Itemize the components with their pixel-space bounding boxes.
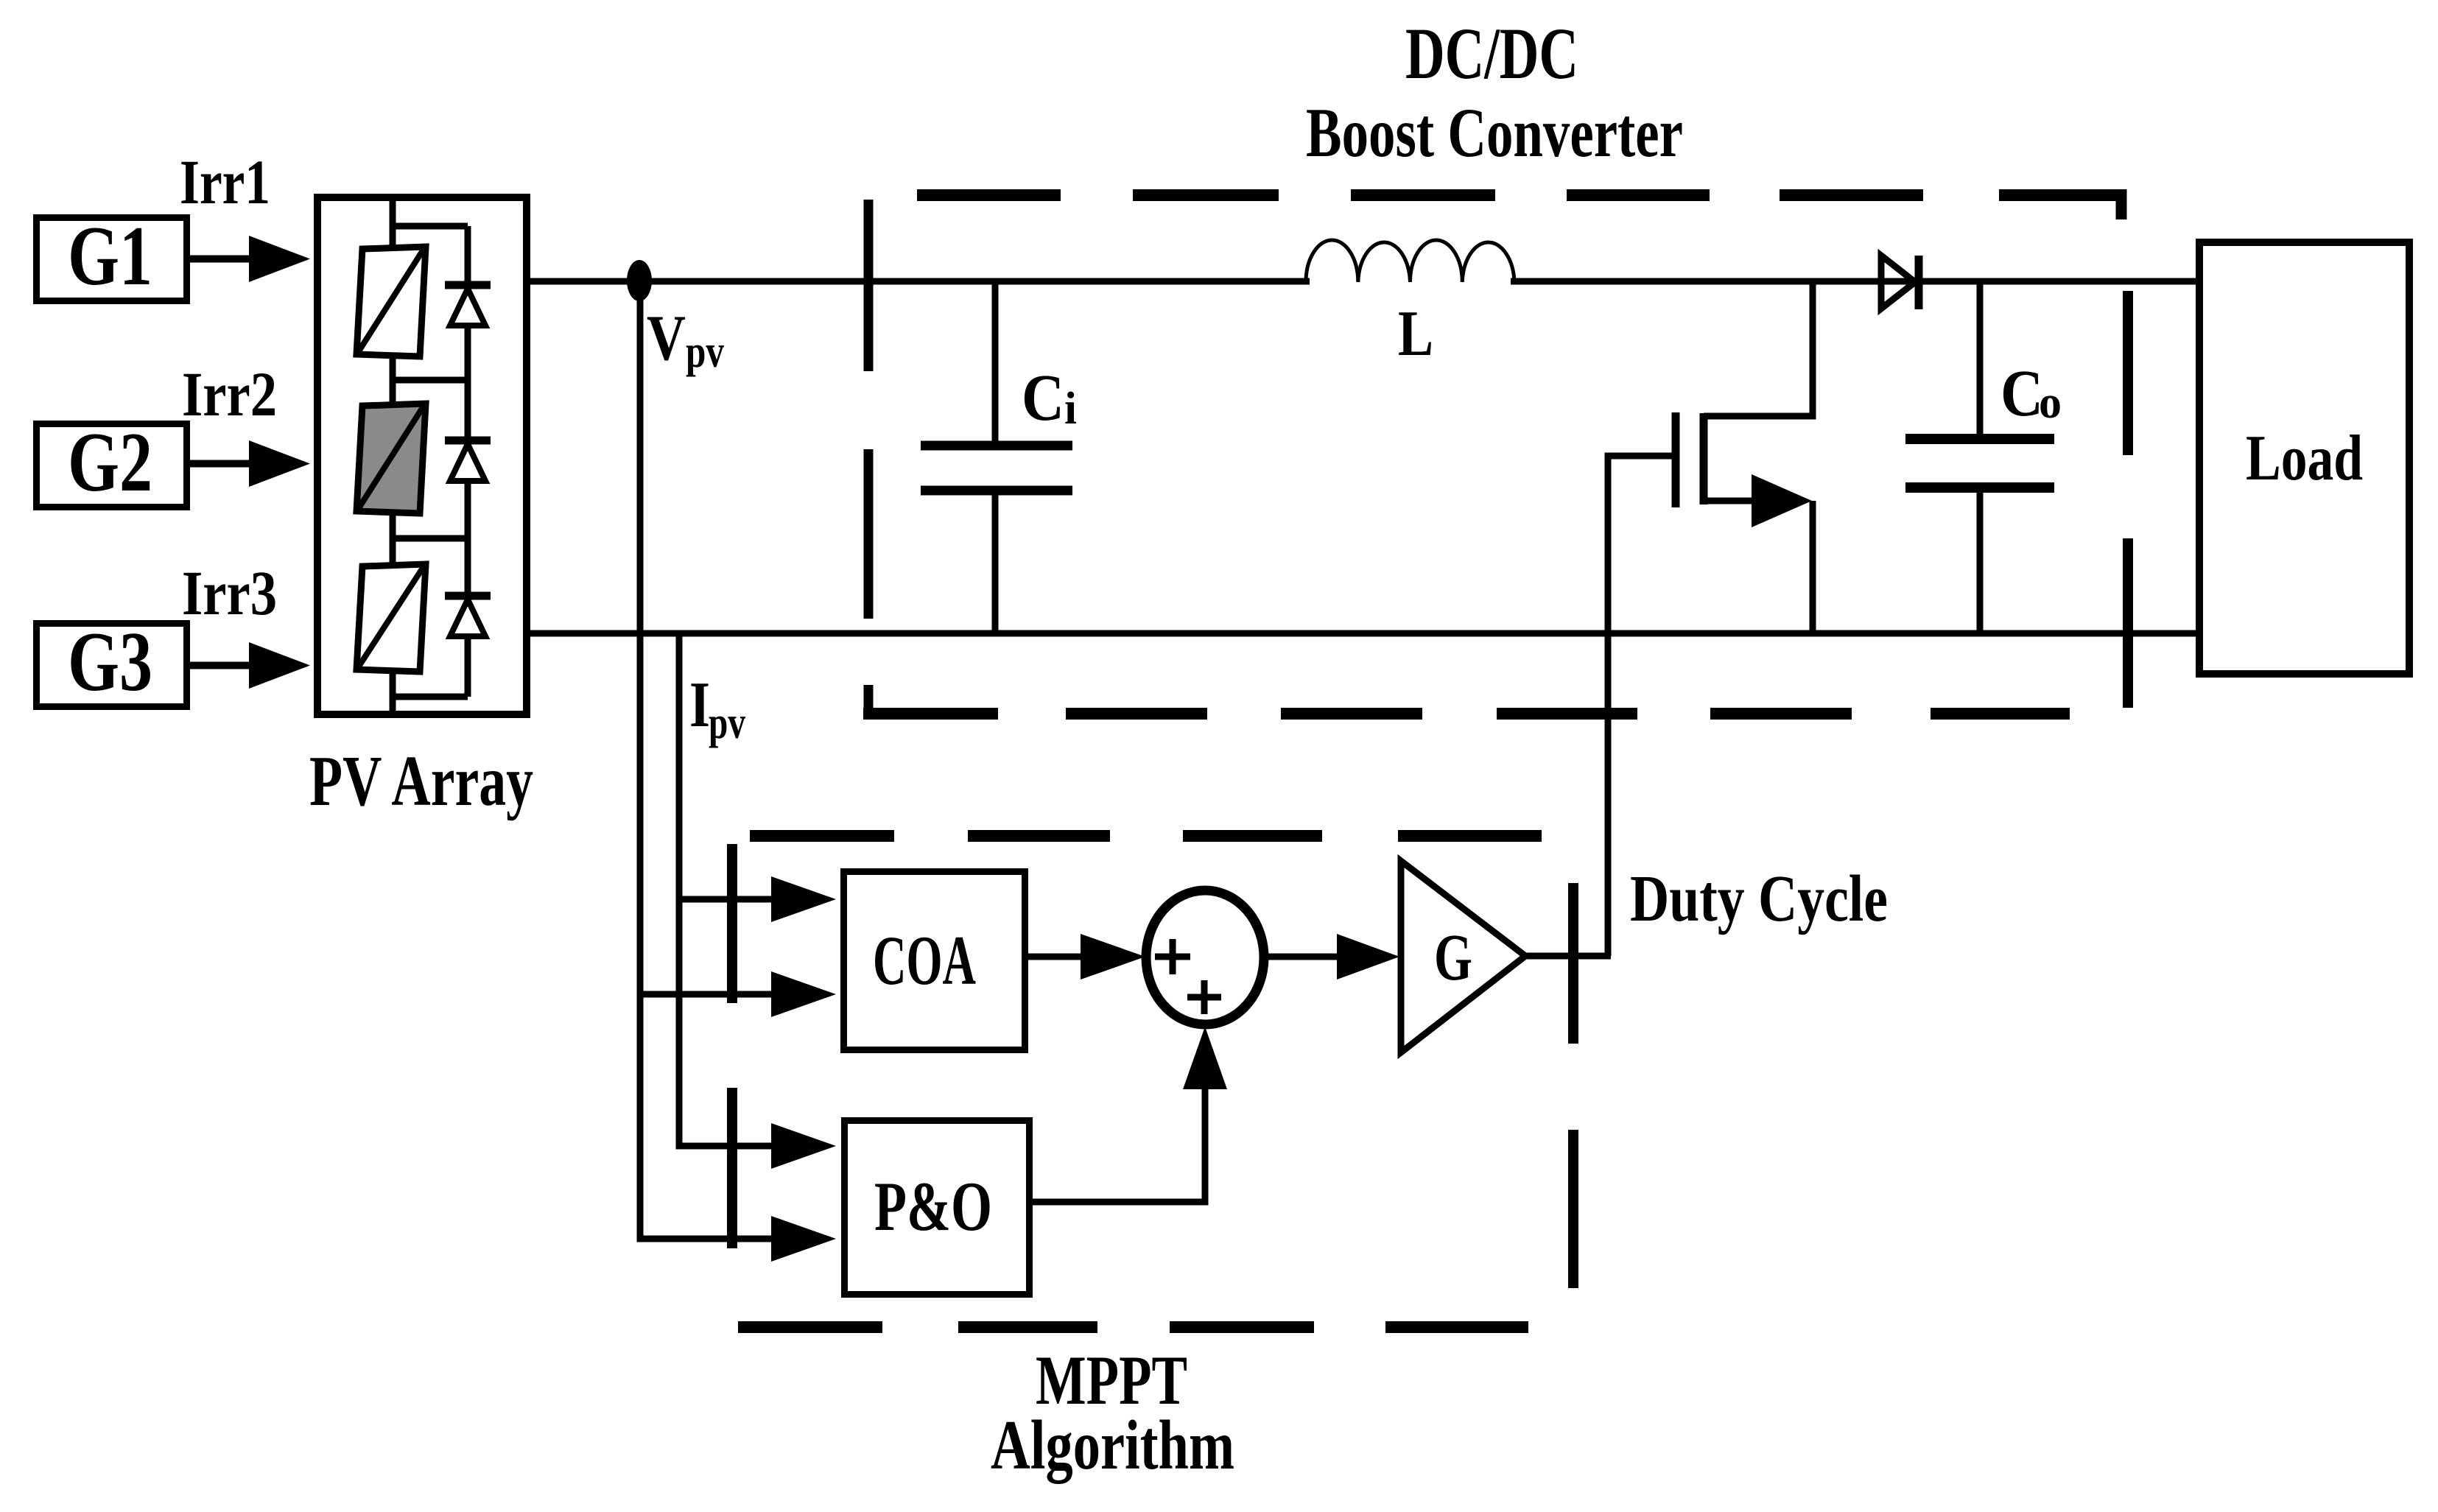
svg-text:Irr2: Irr2 bbox=[182, 359, 277, 429]
svg-text:Load: Load bbox=[2246, 423, 2363, 494]
summing junction bbox=[1146, 890, 1264, 1024]
label Ipv bbox=[689, 669, 745, 748]
arrow Irr2 into PV array bbox=[190, 440, 310, 487]
svg-text:I: I bbox=[689, 669, 710, 741]
boost converter dashed box: left edge bbox=[864, 200, 874, 714]
svg-text:Algorithm: Algorithm bbox=[991, 1406, 1234, 1484]
svg-text:C: C bbox=[1022, 362, 1064, 435]
wire: P&O output to summer bbox=[1029, 1027, 1227, 1206]
svg-text:G2: G2 bbox=[68, 415, 152, 509]
block G3 bbox=[37, 615, 187, 708]
PV module 3 bbox=[356, 564, 426, 672]
boost converter dashed box: top edge bbox=[917, 189, 2121, 201]
drain lead bbox=[1704, 413, 1816, 420]
svg-text:L: L bbox=[1398, 298, 1433, 370]
wire: Ipv to COA input 1 bbox=[679, 876, 836, 922]
svg-text:o: o bbox=[2039, 378, 2062, 428]
wire: duty cycle output bbox=[1525, 953, 1611, 960]
wire: branch between module2 and module3 bbox=[393, 535, 468, 542]
MPPT dashed box: left edge bbox=[727, 844, 737, 1248]
block G1 bbox=[37, 209, 187, 303]
svg-text:i: i bbox=[1064, 384, 1077, 434]
channel bar bbox=[1700, 413, 1708, 504]
boost converter dashed box: right edge bbox=[2123, 291, 2133, 708]
gate lead bbox=[1605, 453, 1676, 460]
wire: bottom branch closing diode chain bbox=[393, 694, 468, 700]
wire: bottom rail bbox=[527, 630, 2199, 637]
svg-text:DC/DC: DC/DC bbox=[1405, 13, 1578, 94]
wire: Ipv sense line down to MPPT bbox=[676, 633, 683, 1150]
svg-text:PV Array: PV Array bbox=[309, 742, 533, 820]
label Ci bbox=[1022, 362, 1077, 435]
svg-text:COA: COA bbox=[873, 921, 976, 999]
wire: PV series string bbox=[390, 197, 396, 714]
wire: top rail left of inductor bbox=[527, 278, 1310, 285]
diode D4 (boost output diode) bbox=[1881, 256, 1919, 309]
arrow Irr3 into PV array bbox=[190, 642, 310, 689]
gate bar bbox=[1672, 412, 1680, 507]
svg-text:G: G bbox=[1434, 921, 1472, 994]
transistor Q1 (MOSFET) bbox=[1605, 281, 1816, 633]
PV module 1 bbox=[356, 247, 426, 356]
boost converter dashed box: top-right corner stub bbox=[2116, 189, 2127, 219]
svg-text:V: V bbox=[647, 303, 686, 374]
block G2 bbox=[37, 415, 187, 509]
arrow summer to gain G bbox=[1262, 934, 1399, 980]
svg-text:Irr3: Irr3 bbox=[182, 558, 277, 628]
block Load bbox=[2199, 242, 2409, 674]
capacitor Co bbox=[1905, 281, 2054, 633]
svg-text:pv: pv bbox=[686, 327, 724, 377]
gain block G bbox=[1401, 861, 1525, 1052]
bypass diode D1 bbox=[445, 285, 491, 440]
bypass diode D2 bbox=[445, 440, 491, 596]
node Vpv (junction dot) bbox=[627, 260, 652, 301]
wire: Ipv to P&O input 1 bbox=[676, 1123, 837, 1169]
MPPT dashed box: right edge bbox=[1568, 883, 1578, 1288]
PV array box bbox=[317, 197, 527, 714]
wire: Vpv to COA input 2 bbox=[640, 971, 836, 1017]
wire: branch between module1 and module2 bbox=[393, 377, 468, 384]
boost converter dashed box: bottom edge bbox=[863, 708, 2070, 720]
svg-text:G3: G3 bbox=[68, 615, 152, 708]
wire: Vpv to P&O input 2 bbox=[637, 1216, 837, 1262]
PV module 2 (shaded) bbox=[356, 404, 426, 513]
label Vpv bbox=[647, 303, 724, 377]
capacitor Ci bbox=[921, 281, 1072, 633]
svg-text:pv: pv bbox=[709, 698, 745, 748]
bypass diode D3 bbox=[445, 596, 491, 697]
wire: Vpv sense line down to MPPT bbox=[637, 281, 644, 1242]
wire: top branch to bypass diodes bbox=[393, 226, 468, 287]
label Co bbox=[2000, 357, 2062, 430]
MPPT dashed box: bottom edge bbox=[738, 1321, 1528, 1333]
svg-text:Irr1: Irr1 bbox=[180, 147, 270, 217]
block COA bbox=[844, 872, 1025, 1050]
wire: top rail right of inductor bbox=[1511, 278, 2199, 285]
arrow COA output to summer bbox=[1027, 934, 1145, 980]
svg-text:C: C bbox=[2000, 357, 2043, 430]
svg-text:Boost Converter: Boost Converter bbox=[1306, 94, 1683, 172]
svg-text:P&O: P&O bbox=[874, 1167, 992, 1245]
inductor L bbox=[1306, 240, 1514, 282]
MPPT dashed box: top edge bbox=[750, 830, 1542, 842]
source lead with arrow bbox=[1704, 498, 1760, 504]
svg-text:Duty Cycle: Duty Cycle bbox=[1630, 862, 1888, 935]
svg-text:G1: G1 bbox=[68, 209, 152, 303]
wire: gate drive line bbox=[1605, 456, 1612, 956]
arrow Irr1 into PV array bbox=[190, 236, 310, 282]
block P&O bbox=[845, 1121, 1030, 1295]
